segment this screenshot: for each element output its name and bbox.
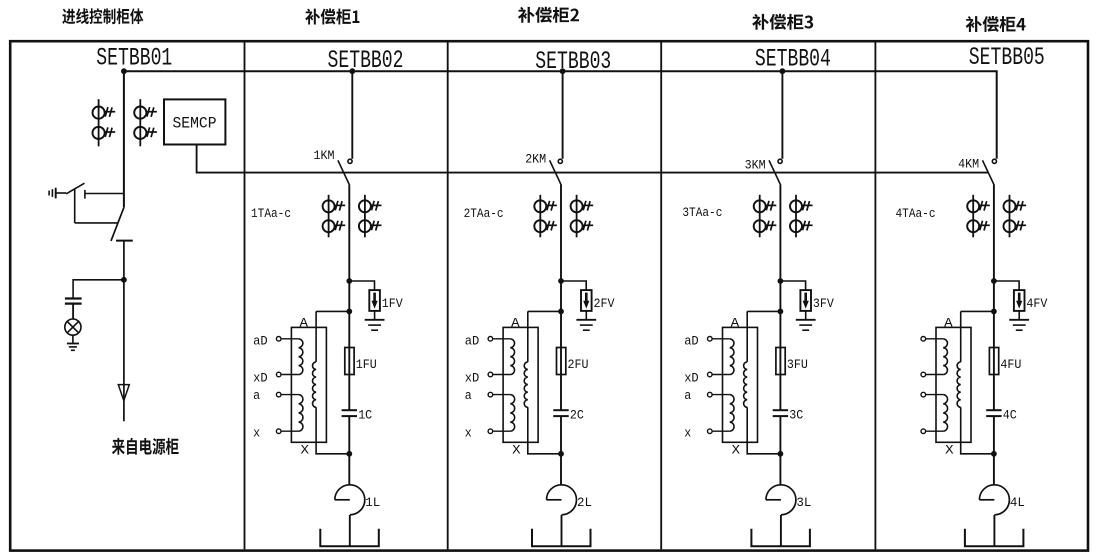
CT 4TAa-c right pair [1004, 195, 1027, 238]
wire to lamp branch [73, 280, 124, 298]
svg-text:1C: 1C [358, 408, 372, 423]
label 补偿柜4 [966, 16, 1026, 32]
svg-text:SETBB05: SETBB05 [969, 43, 1045, 72]
incoming breaker switch [111, 207, 133, 279]
svg-text:X: X [512, 444, 521, 458]
svg-text:X: X [301, 444, 310, 458]
surge arrester 1FV [369, 290, 380, 311]
panel divider 4 [874, 42, 876, 549]
wire to arrester 1FV [349, 281, 374, 290]
svg-text:x: x [253, 427, 260, 441]
feeder drop wire panel 3 [562, 71, 564, 159]
wire to discharge transformer [961, 310, 994, 312]
indicator lamp [65, 319, 81, 335]
wire to arrester 2FV [561, 281, 586, 290]
panel divider 1 [244, 42, 246, 549]
svg-text:1KM: 1KM [314, 149, 335, 163]
panel divider 3 [660, 42, 662, 549]
svg-text:2C: 2C [570, 408, 584, 423]
svg-text:SETBB01: SETBB01 [96, 43, 172, 72]
node arrester branch [991, 278, 997, 284]
CT 1TAa-c left pair [323, 195, 346, 238]
CT 2TAa-c right pair [571, 195, 594, 238]
svg-text:aD: aD [684, 335, 699, 349]
feeder drop wire panel 2 [351, 71, 353, 159]
feeder drop wire panel 4 [781, 71, 783, 159]
node arrester branch [778, 278, 784, 284]
svg-text:1TAa-c: 1TAa-c [251, 207, 291, 221]
svg-text:4FV: 4FV [1026, 296, 1047, 311]
capacitor 2C [553, 410, 568, 416]
wire to discharge transformer [747, 310, 780, 312]
svg-text:a: a [465, 389, 472, 403]
contactor 2KM [550, 159, 563, 184]
wire to discharge transformer [528, 310, 561, 312]
label 来自电源柜 (from power source cabinet) [112, 438, 179, 455]
discharge coil transformer (A-X) [503, 327, 538, 442]
CT 4TAa-c left pair [967, 195, 990, 238]
surge arrester 2FV [581, 290, 592, 311]
ground (lamp) [67, 335, 79, 350]
capacitor 3C [773, 410, 788, 416]
earthing switch ES [49, 183, 124, 223]
svg-text:4KM: 4KM [958, 158, 979, 172]
bottom terminal bracket panel 3 [532, 529, 591, 546]
svg-text:2L: 2L [577, 495, 592, 510]
node arrester branch [558, 278, 564, 284]
panel divider 2 [447, 42, 449, 549]
bottom terminal bracket panel 2 [320, 529, 379, 546]
controller SEMCP [164, 99, 225, 144]
svg-text:1FU: 1FU [356, 357, 377, 372]
svg-text:A: A [944, 316, 953, 330]
reactor 4L [979, 485, 1009, 515]
ground (arrester 4FV) [1009, 311, 1029, 330]
ground (arrester 1FV) [365, 311, 385, 330]
svg-text:A: A [511, 316, 520, 330]
reactor 3L [766, 485, 796, 515]
node reactor branch [778, 451, 784, 457]
capacitor 1C [342, 410, 357, 416]
capacitor 4C [986, 410, 1001, 416]
svg-text:a: a [253, 389, 260, 403]
node transformer primary [778, 309, 784, 315]
CT 1TAa-c right pair [359, 195, 382, 238]
svg-text:4TAa-c: 4TAa-c [896, 207, 936, 221]
discharge coil transformer (A-X) [723, 327, 758, 442]
node reactor branch [991, 451, 997, 457]
svg-text:X: X [945, 444, 954, 458]
reactor 2L [547, 485, 577, 515]
svg-text:2KM: 2KM [525, 153, 546, 167]
node arrester branch [346, 278, 352, 284]
svg-text:x: x [465, 427, 472, 441]
bottom terminal bracket panel 5 [965, 529, 1024, 546]
svg-text:2TAa-c: 2TAa-c [464, 207, 504, 221]
wire to arrester 4FV [994, 281, 1019, 290]
wire to arrester 3FV [780, 281, 805, 290]
svg-text:1L: 1L [365, 495, 380, 510]
CT 3TAa-c left pair [754, 195, 777, 238]
main wire panel 3 [560, 184, 563, 546]
svg-text:aD: aD [253, 335, 268, 349]
svg-text:A: A [731, 316, 740, 330]
CT pair left (incoming) [93, 99, 116, 146]
contactor 1KM [338, 159, 352, 184]
wire [72, 304, 74, 319]
bus node SETBB02 [349, 68, 355, 74]
svg-text:SETBB04: SETBB04 [755, 45, 831, 74]
svg-text:xD: xD [684, 372, 699, 386]
fuse 1FU [345, 348, 354, 375]
CT pair right (incoming) [134, 99, 157, 146]
svg-text:4C: 4C [1003, 408, 1017, 423]
svg-text:3C: 3C [789, 408, 803, 423]
svg-text:1FV: 1FV [382, 296, 403, 311]
node transformer primary [991, 309, 997, 315]
main wire panel 4 [779, 184, 782, 546]
svg-text:aD: aD [465, 335, 480, 349]
main wire panel 5 [993, 184, 996, 546]
contactor 3KM [769, 159, 782, 184]
bottom terminal bracket panel 4 [751, 529, 810, 546]
svg-text:X: X [732, 444, 741, 458]
svg-text:3TAa-c: 3TAa-c [682, 206, 722, 220]
svg-text:2FU: 2FU [568, 357, 589, 372]
label 补偿柜1 (compensation cabinet 1) [305, 9, 359, 25]
discharge coil transformer (A-X) [291, 327, 326, 442]
svg-text:4L: 4L [1010, 495, 1025, 510]
CT 2TAa-c left pair [534, 195, 557, 238]
ground (arrester 3FV) [796, 311, 816, 330]
svg-text:3KM: 3KM [745, 159, 766, 173]
arrow to power source cabinet [118, 385, 129, 401]
node lamp branch [121, 277, 127, 283]
label 补偿柜3 [752, 14, 813, 30]
fuse 2FU [557, 348, 566, 375]
reactor 1L [335, 485, 365, 515]
label 补偿柜2 [518, 7, 579, 23]
svg-text:SEMCP: SEMCP [173, 115, 217, 133]
surge arrester 4FV [1014, 290, 1025, 311]
contactor 4KM [983, 159, 997, 184]
svg-text:3FV: 3FV [813, 296, 834, 311]
node transformer primary [558, 309, 564, 315]
svg-text:x: x [684, 427, 691, 441]
surge arrester 3FV [800, 290, 811, 311]
wire to discharge transformer [316, 310, 349, 312]
main wire panel 2 [348, 184, 351, 546]
svg-text:xD: xD [465, 372, 480, 386]
svg-text:A: A [300, 316, 309, 330]
svg-text:a: a [684, 389, 691, 403]
capacitor (lamp branch) [65, 299, 82, 304]
bus node SETBB04 [780, 68, 786, 74]
control wire from SEMCP to contactors [197, 145, 989, 173]
CT 3TAa-c right pair [790, 195, 813, 238]
bus node SETBB03 [560, 68, 566, 74]
svg-text:xD: xD [253, 372, 268, 386]
svg-text:2FV: 2FV [594, 296, 615, 311]
node transformer primary [346, 309, 352, 315]
label 进线控制柜体 (incoming control cabinet) [62, 8, 143, 24]
ground (arrester 2FV) [576, 311, 596, 330]
svg-text:3FU: 3FU [787, 357, 808, 372]
discharge coil transformer (A-X) [936, 327, 971, 442]
incoming feeder wire [123, 71, 125, 207]
fuse 3FU [776, 348, 785, 375]
main bus wire from SETBB01 across panels [124, 71, 997, 159]
svg-text:3L: 3L [796, 495, 811, 510]
fuse 4FU [989, 348, 998, 375]
wire to source [123, 280, 125, 422]
svg-text:4FU: 4FU [1000, 357, 1021, 372]
node reactor branch [346, 451, 352, 457]
bus node SETBB01 [121, 68, 127, 74]
node reactor branch [558, 451, 564, 457]
